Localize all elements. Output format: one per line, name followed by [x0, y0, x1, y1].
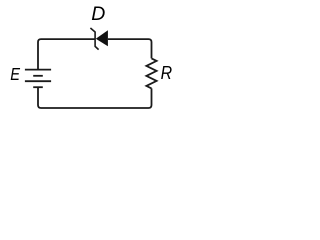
svg-text:R: R [161, 63, 173, 83]
svg-text:D: D [91, 3, 105, 25]
svg-text:E: E [10, 65, 20, 84]
